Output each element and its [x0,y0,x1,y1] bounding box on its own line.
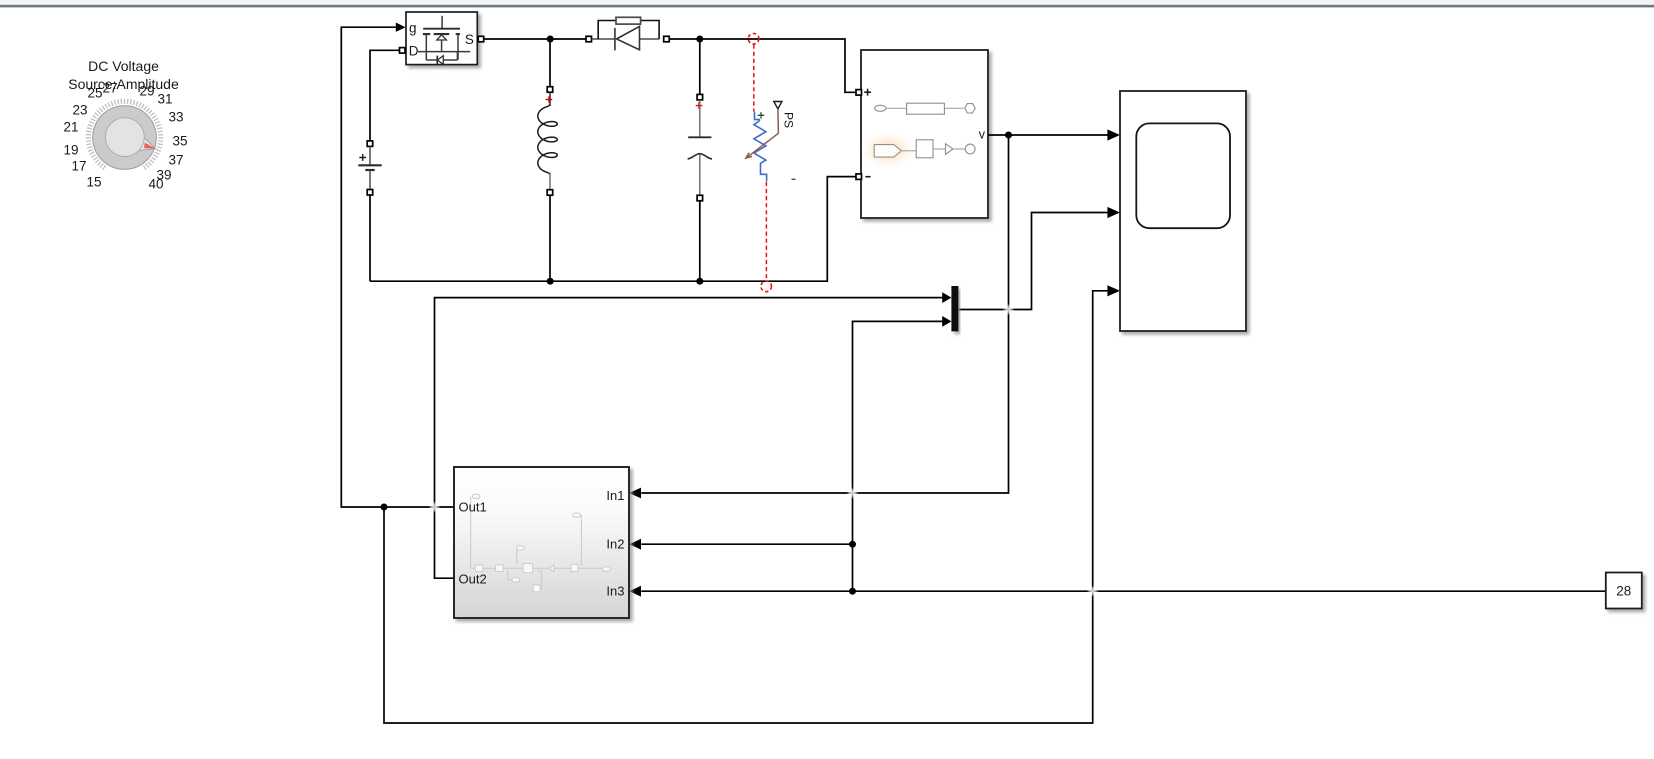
knob K1 inner circle [105,118,144,157]
voltage sensor U1 port square - [856,174,862,180]
svg-text:DC Voltage: DC Voltage [88,58,159,74]
wire inductor bottom stem [549,195,551,281]
wire In2 branch [641,544,852,591]
svg-text:v: v [979,127,986,141]
voltage sensor U1 icon goto tag [874,145,901,158]
knob K1 red pointer tip [144,143,155,149]
svg-text:Out1: Out1 [459,500,487,515]
MOSFET Q1 body diode cathode bar [436,56,438,65]
wire v branch down to In1 [641,135,1008,493]
svg-text:g: g [409,21,417,36]
junction: bottom rail / inductor [547,278,554,285]
wire 28 branch up to mux in2 [853,321,943,544]
voltage sensor U1 label - [865,176,870,178]
subsystem thumbnail oval right-top [573,513,581,517]
diode D1 snubber loop wire [598,21,659,40]
crossover flare at constant wire [1087,585,1099,597]
svg-text:29: 29 [139,84,154,99]
junction: constant wire / In2 branch [849,588,856,595]
PS variable resistor R1 brown arrowhead [746,153,752,159]
subsystem thumbnail square 1 [475,565,483,572]
wire Out1 branch down along bottom to scope in3 [384,291,1108,723]
capacitor C1 bottom lead [699,154,701,195]
wire v output to scope in1 [988,134,1108,136]
subsystem thumbnail triangle [549,565,554,572]
arrowhead into scope in1 [1107,129,1120,140]
subsystem thumbnail oval mid [517,546,525,550]
subsystem thumbnail square bottom [533,585,540,592]
svg-text:33: 33 [168,110,183,125]
svg-text:Source:Amplitude: Source:Amplitude [68,76,179,92]
capacitor C1 curved plate [688,154,712,159]
PS variable resistor R1 red dashed line bottom [765,182,767,281]
junction: Out1 wire branch [381,504,388,511]
diode D1 triangle [617,26,640,49]
diode D1 cathode bar [614,28,616,51]
battery V1 negative plate [365,169,374,171]
subsystem thumbnail square 4 [571,564,578,571]
svg-text:35: 35 [172,134,187,149]
PS variable resistor R1 green minus mark [792,178,796,180]
inductor L1 port square top [547,87,553,93]
battery V1 top lead [369,146,371,164]
wire bottom rail [370,177,856,282]
subsystem thumbnail main line [471,497,604,589]
voltage sensor U1 icon oval left [875,105,886,111]
diode D1 anode lead [592,38,660,40]
wire S rail right: diode R to voltage sensor + [669,39,856,92]
svg-text:28: 28 [1616,584,1631,599]
inductor L1 top lead [549,92,551,106]
svg-text:In1: In1 [606,488,624,503]
svg-text:15: 15 [86,175,101,190]
voltage sensor U1 icon circle [965,144,975,154]
MOSFET Q1 gate bar [423,28,460,30]
constant block 28 body [1606,573,1642,609]
wire battery - to bottom rail [369,195,371,281]
arrowhead into scope in3 [1107,285,1120,296]
PS variable resistor R1 nabla triangle [774,102,782,109]
voltage sensor U1 icon wire 2 [944,107,963,109]
inductor L1 bottom lead [549,173,551,190]
svg-text:23: 23 [72,103,87,118]
svg-text:37: 37 [168,153,183,168]
arrowhead into mux in2 [942,316,951,327]
voltage sensor U1 orange glow [861,133,915,168]
battery V1 positive plate [358,164,381,166]
arrowhead into mux in1 [942,292,951,303]
crossover flare at In1 wire [847,487,859,499]
battery V1 port square + [367,141,373,147]
diode D1 snubber resistor [616,17,641,24]
inductor L1 red plus mark [546,96,553,103]
PS variable resistor R1 blue zigzag [754,121,767,181]
MOSFET Q1 substrate lead [441,40,443,52]
voltage sensor U1 icon wire 4 [933,148,945,150]
svg-text:31: 31 [157,92,172,107]
svg-text:Out2: Out2 [459,572,487,587]
wire gate: Out1 to MOSFET g [341,27,454,507]
crossover flare at Out1 wire [429,501,441,513]
subsystem thumbnail oval top-left [472,494,480,498]
voltage sensor U1 port square + [856,90,862,96]
MOSFET Q1 port square D [400,48,406,54]
crossover flare at mux output [1003,304,1015,316]
wire capacitor bottom stem [699,201,701,282]
mux block bar [951,286,958,331]
capacitor C1 top lead [699,100,701,137]
voltage sensor U1 icon rect [907,103,945,114]
diode D1 port square left [586,36,592,42]
MOSFET Q1 substrate arrow [437,35,447,40]
knob K1 tick marks [86,99,164,170]
junction: v output branch [1005,132,1012,139]
wire Out2 to mux in1 [435,298,943,579]
arrowhead into subsystem In3 [629,586,641,597]
MOSFET Q1 body diode leads [426,52,457,60]
capacitor C1 top plate [688,136,711,138]
voltage sensor U1 icon wire 3 [902,150,917,152]
MOSFET Q1 drain leg [457,34,459,60]
voltage sensor U1 icon wire 1 [886,107,907,109]
voltage sensor U1 icon gain triangle [946,144,954,155]
PS variable resistor R1 red dashed line top [753,45,755,112]
subsystem thumbnail square 2 [496,565,504,572]
inductor L1 port square bottom [547,190,553,196]
wire drain: battery + to MOSFET D [370,50,399,141]
diode D1 port square right [664,36,670,42]
svg-text:D: D [409,44,419,59]
wire mux output to scope in2 [958,213,1107,310]
PS variable resistor R1 red dashed circle bottom [761,281,772,292]
svg-text:17: 17 [71,159,86,174]
subsystem block body [454,467,629,618]
voltage sensor U1 icon hexagon [965,104,976,113]
junction: bottom rail / capacitor [696,278,703,285]
toolbar separator line [0,5,1654,8]
PS variable resistor R1 blue lead top [755,112,760,121]
svg-text:In3: In3 [606,584,624,599]
voltage sensor U1 label + [864,89,871,96]
svg-text:21: 21 [63,120,78,135]
scope screen rounded rect [1136,123,1230,228]
battery V1 bottom lead [369,170,371,189]
MOSFET Q1 block body [406,12,477,65]
wire constant 28 to subsystem In3 [641,590,1606,592]
inductor L1 coil [538,105,558,174]
capacitor C1 port square bottom [697,195,703,201]
wire inductor top stem [549,39,551,87]
arrowhead into MOSFET g [396,23,406,32]
MOSFET Q1 gate lead vertical [441,16,443,28]
arrowhead into scope in2 [1107,207,1120,218]
PS variable resistor R1 green plus mark [758,112,764,118]
toolbar strip [0,0,1654,5]
capacitor C1 red plus mark [696,102,703,109]
capacitor C1 port square top [697,94,703,100]
wire S rail left: MOSFET S to diode L [484,38,586,40]
svg-text:25: 25 [87,86,102,101]
battery V1 port square - [367,190,373,196]
voltage sensor U1 block body [861,50,988,218]
subsystem thumbnail oval bottom [512,578,520,582]
svg-text:27: 27 [102,81,117,96]
battery V1 plus mark [359,154,366,161]
svg-text:In2: In2 [606,537,624,552]
MOSFET Q1 source leg [425,34,427,60]
wire capacitor top stem [699,39,701,94]
MOSFET Q1 D lead horizontal [418,51,470,53]
arrowhead into subsystem In1 [629,488,641,499]
junction: S rail / capacitor [696,36,703,43]
PS variable resistor R1 red dashed circle top [748,34,759,45]
svg-text:40: 40 [148,177,163,192]
MOSFET Q1 port square S [478,36,484,42]
arrowhead into subsystem In2 [629,539,641,550]
MOSFET Q1 channel bars [423,33,460,35]
knob K1 scale numbers [63,81,187,192]
subsystem thumbnail square 3 [523,564,532,573]
junction: S rail / inductor [547,36,554,43]
svg-text:S: S [465,32,474,47]
voltage sensor U1 icon square [916,140,933,158]
MOSFET Q1 body diode triangle [438,56,444,65]
PS variable resistor R1 brown stem [746,109,779,158]
svg-text:PS: PS [781,112,795,128]
voltage sensor U1 icon wire 5 [953,148,965,150]
scope block body [1120,91,1246,331]
svg-text:19: 19 [63,143,78,158]
knob K1 pointer wedge [139,137,156,150]
junction: In2 branch / mux feed [849,541,856,548]
knob K1 outer dial [93,106,157,170]
subsystem thumbnail oval far-right [603,567,611,571]
